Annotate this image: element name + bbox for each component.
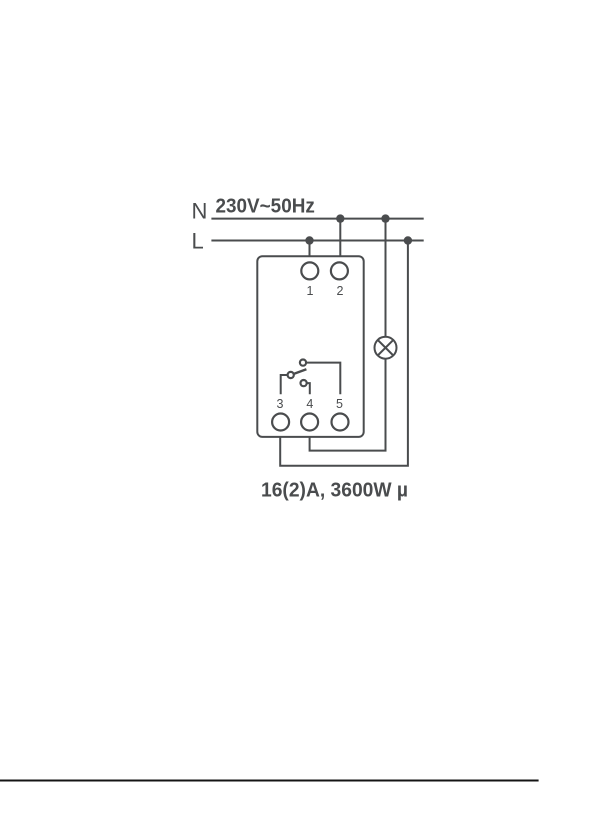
lamp E1 [375,337,397,359]
net L bus line [211,240,423,242]
junction dot L / right drop [404,236,412,244]
switch wire to terminal 3 [281,375,291,394]
junction dot N / terminal2 [336,214,344,222]
svg-text:N: N [192,199,208,224]
terminal 2 [331,262,348,279]
svg-text:4: 4 [306,397,313,411]
wire N to lamp top [385,219,387,337]
device body U1 [257,256,363,437]
footer rule [0,780,539,782]
terminal 1 [301,262,318,279]
junction dot L / terminal1 [305,236,313,244]
switch pivot circle (to 3) [288,372,294,378]
svg-text:L: L [192,229,204,254]
terminal 5 [332,414,349,431]
svg-text:230V~50Hz: 230V~50Hz [216,196,315,218]
svg-text:3: 3 [277,397,284,411]
switch contact circle (to 5) [300,360,306,366]
switch contact circle (to 4) [301,380,307,386]
wire L right drop to terminal 3 [280,241,408,466]
svg-text:16(2)A, 3600W µ: 16(2)A, 3600W µ [261,479,408,501]
switch wire to terminal 5 [303,363,340,395]
switch blade [291,369,307,375]
junction dot N / lamp [381,214,389,222]
net N bus line [211,218,423,220]
wire L to terminal 1 [309,241,311,257]
svg-text:2: 2 [337,284,344,298]
wire N to terminal 2 [339,219,341,257]
terminal 4 [301,414,318,431]
svg-text:1: 1 [307,284,314,298]
switch wire to terminal 4 [304,383,310,394]
svg-text:5: 5 [336,397,343,411]
terminal 3 [272,414,289,431]
wire lamp bottom to terminal 4 [310,359,386,451]
